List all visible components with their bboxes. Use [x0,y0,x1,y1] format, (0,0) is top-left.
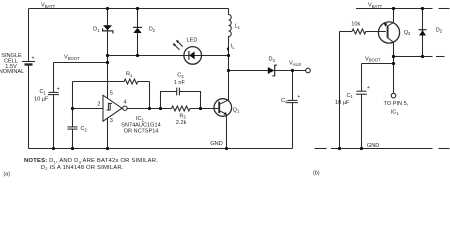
zener/diode D2 (b) [419,9,427,57]
svg-text:IC1: IC1 [391,110,400,116]
svg-text:D2: D2 [149,27,156,33]
wire Q1 emitter to ground [226,115,228,149]
wire D1 vertical net (VBATT to pin5) [107,9,109,99]
svg-text:LED: LED [187,38,198,44]
svg-text:10 µF: 10 µF [34,96,49,102]
wire D3 output line [229,70,306,72]
svg-text:IL: IL [231,44,236,50]
capacitor C3 branch 1nF [161,88,201,109]
node boot rail-D2 [136,54,139,57]
node VBATT-D2 [136,7,139,10]
diode D1 schottky [103,25,113,33]
svg-text:+: + [32,56,35,62]
node inductor-D3 [227,69,230,72]
node emitter wire (b) [392,55,395,58]
svg-text:VBOOT: VBOOT [64,55,80,61]
wire output pin4 [127,108,172,110]
node boot rail-D1 [106,54,109,57]
diode D2 (a) [133,27,142,33]
resistor 10k [352,29,386,34]
svg-text:VBATT: VBATT [368,3,383,9]
wire GND rail (a) [29,148,293,150]
capacitor C1 10uF [48,92,59,94]
node VBOOT-D1 [106,61,109,64]
svg-text:(b): (b) [313,171,320,177]
svg-text:C1: C1 [347,93,354,99]
wire C1 bottom lead [53,95,55,149]
svg-text:C3: C3 [177,73,184,79]
svg-text:D3: D3 [269,57,276,63]
svg-text:D1: D1 [93,27,100,33]
wire input pin2 [73,108,104,110]
svg-text:+: + [57,87,60,93]
LED emission arrows [173,40,183,50]
wire C4 top lead [292,71,294,101]
svg-text:R2: R2 [179,113,186,119]
node gnd-Q1 emitter [225,147,228,150]
wire Q2 emitter up [393,9,395,23]
svg-text:C2: C2 [81,126,88,132]
svg-text:SN74AUC1G14: SN74AUC1G14 [121,122,161,128]
node output-C3 left [159,107,162,110]
svg-text:(a): (a) [4,172,11,178]
svg-text:+: + [367,85,370,91]
wire inductor node down to D3 level and collector [228,56,230,101]
wire C1 top lead [53,63,55,93]
svg-text:D2: D2 [436,27,443,33]
node VBATT-zener (b) [421,7,424,10]
svg-text:OR NC7SP14: OR NC7SP14 [124,129,159,135]
resistor R2 2.2k [172,106,191,111]
node inductor-LED [227,54,230,57]
svg-text:NOMINAL: NOMINAL [0,69,24,75]
capacitor C4 [287,100,298,102]
node gnd-pin3 [106,147,109,150]
svg-text:3: 3 [110,118,113,124]
wire Q2 collector down [393,42,395,93]
wire emitter node to zener [394,56,445,58]
node VBOOT (b) [392,62,395,65]
node VAUX [291,69,294,72]
LED circle and symbol [184,47,202,65]
terminal VAUX [306,68,311,73]
svg-text:VBATT: VBATT [41,3,56,9]
svg-text:10k: 10k [351,21,360,27]
svg-text:1 nF: 1 nF [174,80,186,86]
svg-text:10 µF: 10 µF [335,100,350,106]
node gnd-C2 [71,147,74,150]
svg-text:GND: GND [367,143,379,149]
svg-text:4: 4 [124,99,127,105]
capacitor C2 [68,109,78,149]
svg-text:VAUX: VAUX [289,61,302,67]
label single cell caption [0,53,24,75]
svg-text:Q2: Q2 [404,30,411,36]
resistor R1 feedback [73,79,150,109]
svg-text:C1: C1 [40,89,47,95]
diode D3 schottky [268,65,277,76]
inductor L1 [229,9,232,56]
node VBATT-Q2 (b) [392,7,395,10]
svg-text:2.2k: 2.2k [176,120,187,126]
notes text [4,158,320,178]
svg-text:NOTES: D1, AND D3 ARE BAT42s O: NOTES: D1, AND D3 ARE BAT42s OR SIMILAR. [24,158,158,164]
wire V_BATT rail (b) [356,8,450,10]
battery B1 single cell [22,62,35,65]
node input-C2 [71,107,74,110]
capacitor C1 (b) [356,91,367,94]
wire left pulldown [339,32,341,149]
node VBATT-D1 [106,7,109,10]
node gnd-pulldown (b) [338,147,341,150]
svg-text:Q1: Q1 [233,107,240,113]
node gnd-C1 (b) [360,147,363,150]
wire GND rail (b) [315,148,450,150]
node emitter-zener (b) [421,55,424,58]
svg-text:D2 IS A 1N4148 OR SIMILAR.: D2 IS A 1N4148 OR SIMILAR. [41,165,124,171]
wire V_BOOT horizontal [54,62,108,64]
node output-R1 [148,107,151,110]
node gnd-C1 [52,147,55,150]
wire V_BOOT (b) [362,63,394,65]
svg-text:R1: R1 [126,72,133,78]
current IL arrow [227,48,230,52]
node R2-C3 right [199,107,202,110]
svg-text:C4: C4 [281,98,288,104]
wire battery bottom lead [28,66,30,149]
wire D2a vertical [137,9,139,56]
svg-text:TO PIN 5,: TO PIN 5, [384,101,409,107]
wire 10k input [340,31,353,33]
transistor Q1 [214,99,232,117]
svg-text:VBOOT: VBOOT [365,56,381,62]
svg-text:GND: GND [210,141,222,147]
svg-text:2: 2 [97,101,100,107]
terminal to pin 5 [391,93,396,98]
wire battery top lead [28,9,30,62]
wire C4 bottom lead [292,103,294,149]
transistor Q2 PNP [378,22,399,43]
wire C1b bottom lead [361,94,363,148]
svg-text:+: + [297,94,300,100]
wire pin3 to ground [107,118,109,148]
wire boot rail to LED [108,55,229,57]
op-amp style inverter IC1 triangle [103,95,127,121]
svg-text:5: 5 [110,90,113,96]
svg-text:L1: L1 [235,24,241,30]
wire V_BATT rail (a) [29,8,229,10]
wire C1b top lead [361,64,363,92]
